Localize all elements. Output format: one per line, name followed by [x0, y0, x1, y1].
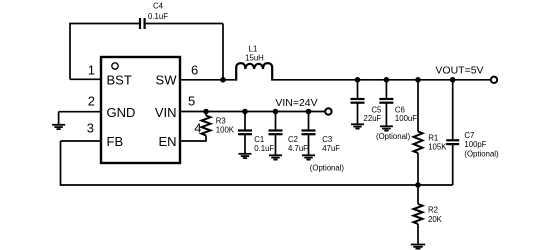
- junction C1/VIN rail: [242, 109, 248, 115]
- junction R1/VOUT rail: [415, 77, 421, 83]
- wire GND vertical down: [58, 112, 60, 124]
- wire right vertical down to SW node: [222, 24, 224, 80]
- resistor R2: [414, 204, 423, 224]
- wire R3 top lead: [205, 112, 207, 116]
- wire R2 bottom lead: [417, 224, 419, 244]
- svg-text:4.7uF: 4.7uF: [288, 144, 308, 153]
- svg-text:C7: C7: [464, 131, 474, 140]
- ground (C3): [302, 155, 315, 159]
- capacitor C7: [446, 140, 459, 144]
- junction R3/VIN rail: [203, 109, 209, 115]
- wire left vertical up to C4: [69, 24, 71, 80]
- wire pin1 to left vertical: [70, 78, 101, 80]
- wire FB vertical down: [60, 141, 62, 185]
- wire C7 top lead: [452, 80, 454, 140]
- svg-text:C4: C4: [153, 2, 164, 11]
- wire pin2 GND to left: [59, 111, 101, 113]
- wire C1 bottom lead: [244, 135, 246, 153]
- wire C6 bottom lead: [385, 103, 387, 125]
- svg-text:C5: C5: [371, 105, 382, 114]
- svg-text:SW: SW: [156, 73, 178, 88]
- svg-text:22uF: 22uF: [364, 114, 382, 123]
- svg-text:3: 3: [87, 121, 94, 136]
- svg-text:VIN: VIN: [155, 105, 177, 120]
- op-amp U1 (regulator IC body): [101, 57, 180, 163]
- svg-text:100uF: 100uF: [395, 114, 417, 123]
- junction C5/VOUT rail: [355, 77, 361, 83]
- svg-text:R3: R3: [216, 116, 226, 125]
- capacitor C2: [269, 131, 283, 135]
- svg-text:C3: C3: [322, 135, 332, 144]
- capacitor C1: [238, 131, 252, 135]
- svg-text:GND: GND: [107, 105, 136, 120]
- wire pin5 VIN rail: [180, 111, 325, 113]
- svg-text:R1: R1: [428, 133, 438, 142]
- wire R3 bottom lead: [205, 135, 207, 141]
- svg-text:0.1uF: 0.1uF: [148, 12, 168, 21]
- svg-text:C2: C2: [288, 135, 298, 144]
- wire C1 top lead: [244, 112, 246, 131]
- svg-text:(Optional): (Optional): [310, 163, 345, 172]
- svg-text:L1: L1: [249, 44, 258, 53]
- svg-text:C1: C1: [254, 135, 264, 144]
- svg-text:20K: 20K: [428, 215, 443, 224]
- ground (C1): [239, 154, 252, 158]
- svg-text:VIN=24V: VIN=24V: [275, 97, 317, 109]
- svg-text:100K: 100K: [216, 125, 235, 134]
- resistor R1: [414, 132, 423, 154]
- capacitor C3: [302, 131, 316, 135]
- wire C2 top lead: [275, 112, 277, 131]
- wire C5 top lead: [357, 80, 359, 99]
- svg-text:EN: EN: [158, 134, 176, 149]
- svg-text:R2: R2: [428, 205, 438, 214]
- terminal VIN: [325, 108, 331, 114]
- terminal VOUT: [491, 77, 497, 83]
- junction SW/C4 node: [220, 77, 226, 83]
- wire FB bottom feedback line: [60, 184, 418, 186]
- junction FB/R1/R2 node: [415, 182, 421, 188]
- wire VOUT rail: [272, 79, 491, 81]
- svg-text:47uF: 47uF: [322, 144, 340, 153]
- wire C7 bottom to FB node: [418, 184, 453, 186]
- svg-text:6: 6: [191, 62, 198, 77]
- junction C3/VIN rail: [306, 109, 312, 115]
- wire pin4 EN to R3: [180, 140, 207, 142]
- ground (pin 2): [52, 125, 65, 129]
- wire C3 top lead: [308, 112, 310, 131]
- wire pin6 SW to inductor: [180, 79, 237, 81]
- wire top left to C4: [69, 23, 139, 25]
- ground (C2): [269, 155, 282, 159]
- svg-text:(Optional): (Optional): [376, 132, 411, 141]
- wire C7 bottom lead: [452, 145, 454, 185]
- ground (R2): [411, 245, 425, 249]
- wire C5 bottom lead: [357, 103, 359, 123]
- wire R1 top lead: [417, 80, 419, 132]
- svg-text:FB: FB: [107, 134, 124, 149]
- capacitor C4: [140, 18, 145, 29]
- svg-text:0.1uF: 0.1uF: [254, 144, 274, 153]
- wire C2 bottom lead: [275, 135, 277, 155]
- wire R2 top lead: [417, 185, 419, 204]
- inductor L1: [236, 63, 272, 80]
- ground (C6): [380, 126, 393, 130]
- resistor R3: [202, 116, 211, 136]
- svg-text:2: 2: [88, 94, 95, 109]
- svg-text:VOUT=5V: VOUT=5V: [435, 64, 483, 76]
- svg-text:15uH: 15uH: [245, 54, 264, 63]
- svg-text:105K: 105K: [428, 143, 447, 152]
- capacitor C6: [379, 99, 393, 103]
- wire C6 top lead: [385, 80, 387, 99]
- wire C4 to right vertical: [146, 23, 223, 25]
- svg-text:BST: BST: [107, 73, 132, 88]
- svg-text:5: 5: [188, 93, 195, 108]
- svg-text:1: 1: [88, 62, 95, 77]
- junction C2/VIN rail: [273, 109, 279, 115]
- svg-text:(Optional): (Optional): [464, 150, 499, 159]
- svg-text:C6: C6: [395, 105, 405, 114]
- svg-text:100pF: 100pF: [464, 140, 486, 149]
- junction C6/VOUT rail: [384, 77, 390, 83]
- wire pin3 FB to left: [61, 140, 102, 142]
- wire C3 bottom lead: [308, 135, 310, 155]
- capacitor C5: [351, 99, 365, 103]
- wire R1 bottom lead: [417, 153, 419, 185]
- junction C7/VOUT rail: [450, 77, 456, 83]
- pin 1 indicator circle: [112, 63, 118, 69]
- ground (C5): [351, 124, 364, 128]
